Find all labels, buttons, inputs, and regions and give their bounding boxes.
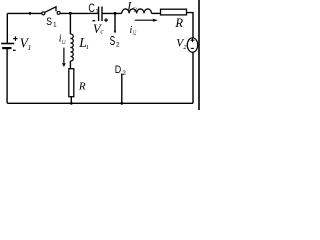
svg-text:R: R: [174, 16, 183, 30]
svg-text:2: 2: [116, 42, 120, 49]
svg-text:C: C: [88, 1, 95, 15]
svg-text:S: S: [110, 34, 116, 48]
svg-text:1: 1: [95, 9, 99, 16]
svg-text:2: 2: [122, 70, 126, 77]
svg-text:L1: L1: [61, 39, 65, 46]
svg-text:1: 1: [86, 44, 89, 51]
svg-text:L2: L2: [132, 29, 137, 36]
svg-text:S: S: [46, 16, 52, 28]
svg-text:1: 1: [53, 22, 57, 29]
svg-text:R: R: [78, 80, 86, 92]
svg-text:D: D: [115, 64, 122, 76]
svg-text:1: 1: [28, 43, 32, 52]
